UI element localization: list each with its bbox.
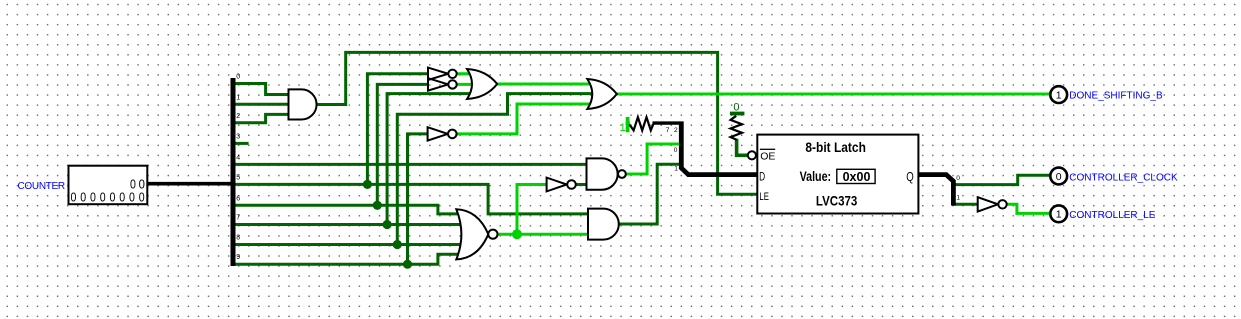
- wire riser bit8 to OR U8 input B: [397, 94, 592, 245]
- wire OR U8 output to pin DONE_SHIFTING_B: [616, 93, 1050, 96]
- svg-text:2: 2: [236, 113, 240, 120]
- svg-text:7: 7: [666, 127, 670, 134]
- wire splitter1 leg2 to AND1 input C: [236, 114, 289, 122]
- wire splitter1 leg0 to AND1 input A: [236, 84, 289, 95]
- wire splitter3 bit0 to pin CONTROLLER_CLOCK: [953, 175, 1050, 184]
- not-gate U2: [428, 68, 448, 80]
- svg-text:Q: Q: [906, 169, 914, 184]
- junction bit5 riser: [363, 180, 372, 189]
- junction NOR output node: [512, 229, 522, 239]
- wire NOT U10 output to NAND U5 input B: [576, 183, 588, 186]
- wire AND1 output to latch LE: [316, 52, 757, 194]
- svg-text:0: 0: [80, 190, 86, 205]
- svg-text:8-bit Latch: 8-bit Latch: [805, 140, 866, 155]
- svg-text:0: 0: [139, 190, 145, 205]
- svg-text:0: 0: [129, 190, 135, 205]
- splitter1 bit labels 0-9: [236, 74, 240, 262]
- wire NOT U9 output to OR U8 input C: [457, 104, 592, 134]
- junction bit8 riser: [393, 240, 402, 249]
- svg-text:6: 6: [236, 195, 240, 202]
- bus counter to splitter1: [147, 182, 231, 186]
- wire splitter1 leg6 to NOR U7 input A: [236, 205, 464, 214]
- wire riser bit7 to OR U4 input C: [387, 94, 474, 225]
- wire splitter1 leg1 to AND1 input B: [236, 103, 289, 106]
- svg-text:0: 0: [733, 102, 739, 114]
- counter COUNTER: [69, 166, 148, 205]
- svg-text:7: 7: [236, 215, 240, 222]
- wire constant stub to resistor R1: [626, 122, 630, 125]
- junction bit7 riser: [383, 220, 392, 229]
- pull resistor R2 value 0: [730, 112, 745, 116]
- svg-text:1: 1: [236, 94, 240, 101]
- svg-text:1: 1: [1056, 209, 1062, 221]
- svg-text:0x00: 0x00: [843, 170, 871, 184]
- svg-text:CONTROLLER_LE: CONTROLLER_LE: [1069, 210, 1155, 221]
- wire splitter1 leg3 stub: [236, 142, 249, 145]
- splitter3 bit labels: [956, 175, 960, 202]
- latch U12 8-bit Latch LVC373: [757, 135, 918, 214]
- or-gate U4: [467, 69, 497, 99]
- value box 0x00: [837, 169, 875, 183]
- pin CONTROLLER_CLOCK: [1050, 168, 1067, 185]
- svg-text:8: 8: [236, 235, 240, 242]
- wire splitter3 bit1 to NOT U11 input: [953, 203, 977, 206]
- nand-gate U5: [587, 158, 618, 189]
- svg-text:0: 0: [110, 190, 116, 205]
- wire NOT U3 output to OR U4 input B: [457, 83, 474, 86]
- pull resistor R1 value 1: [626, 117, 630, 132]
- svg-text:0: 0: [100, 190, 106, 205]
- svg-text:2: 2: [674, 127, 678, 134]
- nor-gate U7: [456, 209, 488, 259]
- wire riser bit6 to NOT U3 input: [377, 84, 428, 205]
- svg-text:0: 0: [674, 147, 678, 154]
- bus resistor R1 to splitter2 bits 7-2: [653, 121, 680, 124]
- svg-text:LE: LE: [759, 191, 769, 203]
- splitter2 bar and spine to latch D: [681, 121, 757, 174]
- svg-text:4: 4: [236, 155, 240, 162]
- svg-text:0: 0: [90, 190, 96, 205]
- and-gate U6: [588, 209, 619, 240]
- svg-text:DONE_SHIFTING_B: DONE_SHIFTING_B: [1069, 91, 1163, 102]
- wire NOT U2 output to OR U4 input A: [457, 72, 474, 75]
- pin DONE_SHIFTING_B: [1050, 86, 1067, 103]
- svg-text:CONTROLLER_CLOCK: CONTROLLER_CLOCK: [1069, 173, 1178, 184]
- wire pull resistor R2 to OE bubble: [737, 139, 748, 156]
- wire riser bit5 to NOT U2 input: [367, 74, 428, 185]
- svg-text:COUNTER: COUNTER: [18, 181, 65, 192]
- svg-text:1: 1: [956, 195, 960, 202]
- not-gate U3: [428, 78, 448, 90]
- svg-text:0: 0: [1056, 171, 1062, 183]
- or-gate U8: [587, 79, 617, 109]
- wire OR U4 output to OR U8 input A: [497, 83, 592, 86]
- svg-text:0: 0: [71, 190, 77, 205]
- wire splitter1 leg9 to NOR U7 input D: [236, 254, 464, 264]
- wire NOT U11 output to pin CONTROLLER_LE: [1007, 204, 1051, 213]
- wire splitter1 leg8 to NOR U7 input C: [236, 243, 464, 246]
- and-gate U1: [289, 89, 317, 119]
- not-gate U11: [978, 197, 998, 211]
- wire riser bit9 to NOT U9 input: [408, 134, 428, 264]
- svg-text:1: 1: [674, 166, 678, 173]
- not-gate U9: [428, 127, 448, 140]
- svg-text:OE: OE: [760, 150, 775, 162]
- svg-text:LVC373: LVC373: [816, 193, 858, 208]
- wire splitter1 leg5 to AND U6 input A: [236, 184, 591, 214]
- wire splitter1 leg4 to NAND U5 input A: [236, 163, 589, 166]
- svg-text:0: 0: [119, 190, 125, 205]
- not-gate U10: [547, 178, 567, 192]
- svg-text:0: 0: [236, 74, 240, 81]
- wire NOR U7 output to AND U6 input B: [497, 233, 590, 236]
- svg-text:Value:: Value:: [800, 169, 832, 184]
- svg-text:1: 1: [620, 122, 626, 134]
- splitter1 bar: [231, 78, 236, 266]
- wire AND U6 output to splitter2 bit1: [619, 164, 680, 224]
- wire NAND U5 output to splitter2 bit0: [626, 144, 679, 174]
- splitter2 bit labels: [666, 127, 679, 173]
- svg-text:5: 5: [236, 175, 240, 182]
- wire splitter1 leg7 to NOR U7 input B: [236, 223, 464, 226]
- svg-text:1: 1: [1056, 89, 1062, 101]
- svg-text:0: 0: [956, 175, 960, 182]
- svg-text:9: 9: [236, 254, 240, 261]
- bus latch Q to splitter3: [918, 175, 953, 206]
- latch U12 OE inversion bubble: [748, 151, 756, 159]
- svg-text:3: 3: [236, 134, 240, 141]
- pin CONTROLLER_LE: [1050, 205, 1067, 222]
- svg-text:D: D: [759, 170, 765, 184]
- junction bit9 riser: [403, 260, 412, 269]
- wire NOR output riser to NOT U10 input: [517, 185, 547, 235]
- junction bit6 riser: [373, 201, 382, 210]
